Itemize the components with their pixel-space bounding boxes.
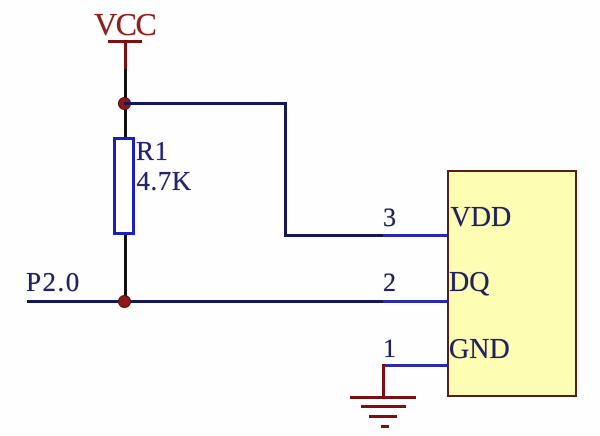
wire R1 bottom to P2.0 net (black vertical) bbox=[124, 235, 127, 301]
pin 2 lead bbox=[383, 300, 448, 303]
label R1 bbox=[136, 138, 169, 165]
ground symbol bar 1 bbox=[350, 396, 416, 399]
pin number 2 bbox=[383, 270, 396, 296]
wire VCC stub to resistor R1 (black vertical) bbox=[124, 69, 127, 139]
VCC power bar bbox=[108, 40, 142, 43]
ground symbol bar 3 bbox=[369, 415, 397, 418]
wire corner down to pin 3 row (vertical navy) bbox=[284, 102, 287, 237]
wire pin 1 to ground (maroon) bbox=[382, 364, 385, 397]
resistor R1 body bbox=[113, 137, 135, 235]
wire P2.0 horizontal (navy) bbox=[27, 300, 383, 303]
wire corner to pin 3 (horizontal navy) bbox=[284, 234, 384, 237]
junction node VCC/R1 bbox=[118, 97, 131, 110]
pin name VDD bbox=[451, 204, 512, 232]
net label P2.0 bbox=[26, 269, 81, 296]
value 4.7K bbox=[137, 168, 192, 195]
VCC power stub wire bbox=[124, 42, 127, 71]
junction node P2.0/R1 bbox=[118, 295, 131, 308]
power symbol VCC label bbox=[94, 8, 155, 40]
pin 3 lead bbox=[383, 234, 448, 237]
wire junction to corner (horizontal navy) bbox=[124, 102, 287, 105]
pin 1 lead bbox=[383, 364, 448, 367]
ground symbol bar 2 bbox=[361, 405, 406, 408]
pin name GND bbox=[449, 336, 510, 364]
pin number 3 bbox=[383, 205, 396, 231]
pin name DQ bbox=[449, 269, 489, 297]
pin number 1 bbox=[383, 336, 396, 362]
ground symbol bar 4 bbox=[381, 425, 389, 428]
IC U1 body bbox=[447, 170, 577, 397]
